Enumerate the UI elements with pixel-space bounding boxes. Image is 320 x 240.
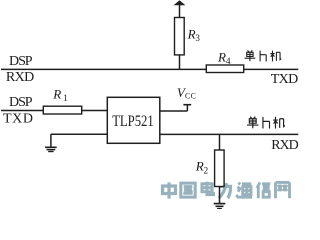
Vcc terminal bar xyxy=(183,104,191,106)
svg-text:TLP521: TLP521 xyxy=(112,113,154,130)
svg-text:RXD: RXD xyxy=(271,138,299,153)
信 xyxy=(257,182,270,198)
svg-text:TXD: TXD xyxy=(271,72,299,87)
svg-text:3: 3 xyxy=(195,33,200,43)
svg-text:R: R xyxy=(217,49,226,64)
resistor R2 xyxy=(215,150,225,187)
svg-text:DSP: DSP xyxy=(9,95,33,110)
svg-text:2: 2 xyxy=(204,165,209,175)
node label MCU 单片机 (top right) xyxy=(245,50,282,61)
svg-text:1: 1 xyxy=(63,93,67,103)
resistor R4 xyxy=(206,65,243,73)
国 xyxy=(181,183,195,197)
svg-text:CC: CC xyxy=(185,92,196,101)
中 xyxy=(163,182,176,198)
svg-text:RXD: RXD xyxy=(6,70,34,85)
网 xyxy=(275,182,289,198)
svg-text:R: R xyxy=(187,26,196,41)
resistor R1 xyxy=(43,106,81,114)
力 xyxy=(219,183,231,198)
ground (bottom) xyxy=(214,203,226,205)
svg-text:TXD: TXD xyxy=(3,111,33,126)
wire: R2 to ground xyxy=(219,187,221,204)
ground (left) xyxy=(45,146,57,148)
svg-text:R: R xyxy=(195,159,204,174)
wire: arrow to R3 xyxy=(179,5,181,19)
电 xyxy=(202,182,214,195)
wire: top rail DSP RXD to MCU TXD xyxy=(1,68,298,70)
wire: lower rail to R2 xyxy=(219,134,221,150)
watermark 中国电力通信网 xyxy=(163,182,290,199)
svg-text:R: R xyxy=(52,86,61,101)
svg-text:DSP: DSP xyxy=(9,54,33,69)
svg-text:4: 4 xyxy=(226,56,231,66)
wire: R3 to top rail xyxy=(179,55,181,70)
optocoupler U1 TLP521 xyxy=(107,97,160,143)
wire: TLP521 collector to Vcc xyxy=(160,110,188,112)
wire: TLP521 emitter rail to MCU RXD xyxy=(160,133,298,135)
resistor R3 xyxy=(175,18,185,55)
wire: TLP521 cathode to ground xyxy=(51,133,107,135)
wire: DSP TXD rail to TLP521 xyxy=(1,110,107,112)
通 xyxy=(236,183,252,197)
node label MCU 单片机 (right, lower rail) xyxy=(247,117,285,129)
power arrow above R3 xyxy=(174,0,186,5)
